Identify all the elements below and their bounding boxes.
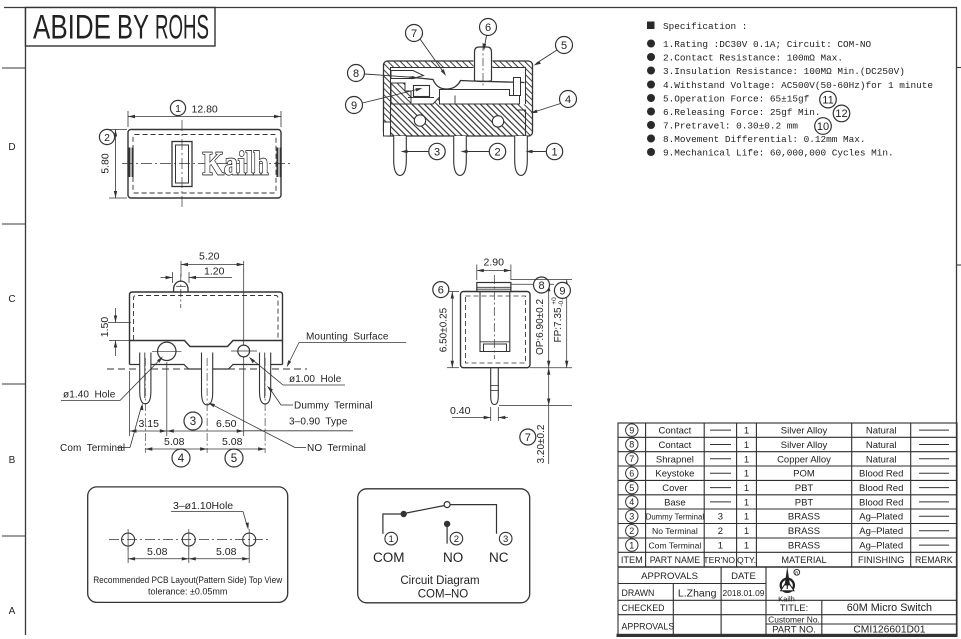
svg-text:5.08: 5.08: [164, 436, 185, 448]
svg-text:Natural: Natural: [866, 426, 897, 437]
svg-text:PBT: PBT: [795, 483, 814, 494]
svg-text:TER'NO.: TER'NO.: [703, 555, 737, 565]
dimension 6.50+-0.25: [447, 292, 459, 368]
dimension 3.15: [130, 362, 167, 436]
svg-text:6.50: 6.50: [216, 418, 237, 430]
label Mounting Surface: [287, 332, 406, 368]
switch lever wire: [407, 506, 445, 514]
svg-text:1: 1: [551, 147, 557, 159]
svg-text:Contact: Contact: [659, 440, 692, 451]
svg-text:REMARK: REMARK: [915, 555, 953, 565]
node COM (filled): [401, 511, 407, 517]
PCB box border: [88, 487, 288, 603]
callout 6: [480, 19, 497, 51]
svg-text:ABIDE: ABIDE: [33, 9, 111, 47]
table header row texts: [621, 555, 953, 565]
svg-text:Com Terminal: Com Terminal: [60, 443, 125, 454]
svg-text:1: 1: [718, 541, 723, 552]
zone tick left 3: [2, 383, 26, 385]
svg-text:COM–NO: COM–NO: [418, 589, 469, 601]
svg-text:1: 1: [175, 103, 181, 115]
svg-text:Circuit Diagram: Circuit Diagram: [400, 575, 479, 587]
front inner dashed outline: [134, 296, 279, 341]
plunger centerline: [482, 43, 484, 86]
svg-text:9.Mechanical Life: 60,000,000: 9.Mechanical Life: 60,000,000 Cycles Min…: [663, 148, 894, 159]
svg-text:DRAWN: DRAWN: [622, 588, 655, 598]
dimension 5.08 right: [207, 448, 265, 450]
svg-text:D: D: [8, 142, 15, 153]
svg-text:1.20: 1.20: [204, 266, 225, 278]
callout circle 12: [833, 105, 850, 122]
frame right border: [956, 8, 958, 638]
svg-text:DATE: DATE: [731, 571, 756, 582]
svg-text:3: 3: [629, 511, 634, 521]
part 9 base line: [408, 97, 434, 99]
svg-text:Natural: Natural: [866, 440, 897, 451]
top view inner dashed outline: [133, 135, 276, 194]
svg-text:1: 1: [629, 540, 634, 550]
zone tick left 2: [2, 223, 26, 225]
svg-text:QTY.: QTY.: [737, 555, 756, 565]
svg-text:4: 4: [178, 453, 185, 465]
wire NO lead: [446, 527, 448, 544]
svg-text:2018.01.09: 2018.01.09: [723, 588, 765, 598]
hole NO (right): [238, 345, 250, 357]
svg-text:3.20±0.2: 3.20±0.2: [536, 424, 547, 463]
com contact finger: [391, 71, 424, 79]
dimension 12.80: [128, 111, 281, 127]
svg-text:3: 3: [718, 512, 723, 523]
dimension FP:7.35: [511, 280, 572, 368]
terminal NO (middle): [202, 353, 213, 405]
svg-text:ITEM: ITEM: [621, 555, 643, 565]
side plunger cap ribs: [477, 286, 511, 288]
top view keystem inner rect: [176, 145, 189, 183]
svg-text:1: 1: [744, 512, 749, 523]
terminal com centerline: [144, 358, 146, 453]
callout circle 3 (front): [184, 412, 202, 430]
dimension 2.90: [477, 265, 511, 281]
label 3-0.90 Type: [244, 417, 353, 431]
side inner dashed outline: [466, 296, 526, 363]
terminal circle 1: [385, 532, 398, 545]
svg-text:FP:7.35: FP:7.35: [553, 307, 564, 342]
svg-text:2: 2: [629, 526, 634, 536]
circuit box border: [358, 489, 530, 603]
dimension 6.50: [167, 430, 244, 432]
NO block inner line: [454, 96, 456, 105]
svg-text:1: 1: [744, 440, 749, 451]
svg-text:12: 12: [835, 108, 847, 120]
svg-text:Blood Red: Blood Red: [859, 483, 903, 494]
svg-text:APPROVALS: APPROVALS: [622, 622, 675, 632]
svg-text:1: 1: [744, 483, 749, 494]
svg-text:Base: Base: [664, 497, 686, 508]
cavity inner outline: [391, 68, 526, 105]
svg-text:9: 9: [629, 425, 634, 435]
spec bullet 5: [647, 94, 655, 102]
dimension 3.20+-0.2: [499, 368, 572, 464]
dimension 5.20: [181, 261, 244, 345]
svg-text:8.Movement Differential: 0.12m: 8.Movement Differential: 0.12mm Max.: [663, 134, 866, 145]
table outer border: [618, 423, 957, 635]
side centerline: [493, 275, 495, 359]
svg-text:C: C: [8, 294, 15, 305]
svg-text:7.Pretravel: 0.30±0.2 mm: 7.Pretravel: 0.30±0.2 mm: [663, 121, 798, 132]
svg-text:BRASS: BRASS: [788, 526, 820, 537]
svg-text:Recommended PCB Layout(Pattern: Recommended PCB Layout(Pattern Side) Top…: [93, 575, 282, 585]
svg-text:tolerance: ±0.05mm: tolerance: ±0.05mm: [148, 587, 227, 597]
table column lines: [645, 423, 647, 567]
hole com crosshair: [152, 350, 182, 352]
svg-text:7: 7: [629, 454, 634, 464]
dimension 5.80: [109, 130, 127, 199]
svg-text:3: 3: [434, 147, 440, 159]
svg-text:ø1.40 Hole: ø1.40 Hole: [63, 390, 116, 401]
terminal dummy inner line: [264, 353, 266, 399]
front plunger dome: [174, 281, 188, 292]
terminal NO centerline: [206, 358, 208, 453]
svg-text:Cover: Cover: [662, 483, 687, 494]
svg-text:PART NO.: PART NO.: [772, 624, 816, 635]
callout 5: [534, 37, 573, 66]
dimension 1.50: [108, 308, 131, 356]
callout circle 4 (front): [172, 449, 190, 467]
side plunger stem: [480, 292, 510, 352]
callout circle 7 (side): [520, 429, 536, 445]
callout 8: [348, 65, 419, 82]
svg-text:+0: +0: [551, 297, 558, 305]
svg-text:APPROVALS: APPROVALS: [641, 571, 698, 582]
spec title square bullet: [647, 22, 655, 30]
svg-text:8: 8: [629, 440, 634, 450]
side pin: [491, 368, 499, 405]
callout circle 9 (side): [554, 282, 570, 298]
side plunger stem divider: [480, 341, 510, 343]
label 3-o1.10Hole: [171, 500, 249, 530]
side plunger cap: [477, 283, 511, 292]
top view keystem outer rect: [172, 142, 192, 187]
front plunger crosshair tick: [176, 286, 186, 288]
zone tick left 4: [2, 535, 26, 537]
svg-text:5: 5: [231, 453, 237, 465]
terminal dummy (right): [260, 353, 271, 405]
svg-text:3.Insulation Resistance: 100MΩ: 3.Insulation Resistance: 100MΩ Min.(DC25…: [663, 66, 905, 77]
svg-text:Blood Red: Blood Red: [859, 469, 903, 480]
svg-text:8: 8: [353, 68, 359, 80]
svg-text:5.08: 5.08: [222, 436, 243, 448]
svg-text:0.40: 0.40: [450, 405, 471, 417]
shrapnel spring: [409, 77, 525, 89]
spec bullet 4: [647, 81, 655, 89]
svg-text:8: 8: [538, 280, 544, 292]
svg-text:2.Contact Resistance: 100mΩ Ma: 2.Contact Resistance: 100mΩ Max.: [663, 53, 843, 64]
svg-text:10: 10: [817, 121, 829, 133]
svg-text:CHECKED: CHECKED: [622, 603, 665, 613]
section pin 2 (middle): [454, 136, 467, 176]
node NO (filled): [444, 521, 450, 527]
svg-text:4: 4: [565, 94, 571, 106]
left hatched fixture: [391, 83, 411, 104]
svg-text:BY: BY: [117, 9, 149, 47]
front body bottom edge: [130, 365, 283, 370]
NO contact block: [440, 90, 520, 105]
svg-text:11: 11: [822, 94, 833, 106]
svg-text:Customer No.: Customer No.: [768, 614, 820, 624]
svg-text:6.50±0.25: 6.50±0.25: [439, 307, 450, 352]
qty column: [744, 426, 749, 552]
node lever pivot (open): [444, 502, 450, 508]
right contact bar: [514, 78, 521, 96]
svg-text:POM: POM: [793, 469, 815, 480]
svg-text:3–ø1.10Hole: 3–ø1.10Hole: [173, 500, 233, 512]
finishing column: [859, 426, 903, 552]
base hole right: [492, 116, 503, 127]
front step line: [130, 341, 283, 347]
svg-text:5: 5: [561, 40, 567, 52]
svg-text:3.15: 3.15: [139, 418, 160, 430]
PCB centerline: [109, 539, 268, 541]
callout 2 with arrow: [461, 143, 506, 159]
svg-text:Kailh: Kailh: [778, 595, 795, 604]
svg-text:1: 1: [389, 534, 394, 545]
svg-text:5.20: 5.20: [199, 251, 220, 263]
callout 1 with arrow: [526, 143, 563, 159]
spec bullet 1: [647, 40, 655, 48]
top view side tabs: [128, 148, 281, 178]
svg-text:Silver Alloy: Silver Alloy: [781, 440, 828, 451]
svg-text:1: 1: [744, 497, 749, 508]
frame top border: [4, 7, 957, 9]
svg-text:9: 9: [559, 285, 565, 297]
svg-text:Specification :: Specification :: [663, 21, 747, 32]
dimension 1.20: [161, 272, 233, 283]
zone tick right 2: [957, 264, 961, 266]
svg-text:2: 2: [454, 534, 459, 545]
callout 3 with arrow: [401, 143, 446, 159]
svg-text:3–0.90 Type: 3–0.90 Type: [289, 417, 348, 428]
svg-text:12.80: 12.80: [192, 104, 218, 116]
mounting surface dashed line: [107, 368, 307, 370]
spec bullet 8: [647, 135, 655, 143]
spec bullet 6: [647, 108, 655, 116]
svg-text:Natural: Natural: [866, 454, 897, 465]
svg-text:3: 3: [503, 534, 508, 545]
svg-text:1.50: 1.50: [99, 317, 111, 338]
front body outline: [130, 292, 283, 365]
PCB dimension 5.08 left: [128, 548, 249, 563]
svg-text:NO: NO: [443, 550, 463, 565]
svg-text:Ag–Plated: Ag–Plated: [859, 512, 903, 523]
svg-text:Dummy Terminal: Dummy Terminal: [294, 401, 373, 412]
svg-text:2: 2: [718, 526, 723, 537]
svg-text:2.90: 2.90: [484, 257, 505, 269]
svg-text:7: 7: [411, 28, 417, 40]
material column: [777, 426, 831, 552]
svg-text:CMI126601D01: CMI126601D01: [853, 624, 925, 635]
dimension OP:6.90+-0.2: [511, 284, 572, 368]
callout circle 2 (top view): [99, 129, 114, 144]
callout circle 6 (side): [433, 282, 449, 298]
callout 9: [346, 88, 423, 114]
side plunger stem inner box: [484, 344, 507, 352]
svg-text:1: 1: [744, 426, 749, 437]
svg-text:6.Releasing Force: 25gf Min.: 6.Releasing Force: 25gf Min.: [663, 107, 821, 118]
callout circle 10: [815, 118, 832, 135]
svg-text:Dummy Terminal: Dummy Terminal: [646, 513, 705, 522]
label NO Terminal: [208, 403, 366, 454]
svg-text:6: 6: [438, 285, 444, 297]
table bottom thick border: [617, 634, 958, 637]
section pin 1 (right): [515, 136, 528, 176]
svg-text:1: 1: [744, 526, 749, 537]
part 9 block: [414, 86, 430, 97]
wire NC lead: [450, 505, 496, 534]
table row lines: [618, 436, 957, 438]
svg-text:1: 1: [744, 469, 749, 480]
spec bullet 7: [647, 121, 655, 129]
wire COM lead: [383, 514, 401, 534]
remark column dashes: [919, 430, 949, 545]
svg-text:ROHS: ROHS: [155, 9, 209, 47]
svg-text:No Terminal: No Terminal: [652, 526, 698, 536]
hole com (left): [158, 342, 176, 360]
svg-text:B: B: [9, 455, 16, 466]
svg-text:Shrapnel: Shrapnel: [656, 454, 694, 465]
svg-text:5.80: 5.80: [100, 153, 112, 174]
svg-text:ø1.00 Hole: ø1.00 Hole: [289, 374, 342, 385]
side pin marks: [491, 385, 499, 387]
base hole left: [414, 115, 425, 126]
svg-text:MATERIAL: MATERIAL: [781, 555, 826, 565]
front plunger centerline: [180, 274, 182, 308]
callout circle 11: [820, 91, 837, 108]
svg-text:3: 3: [190, 416, 196, 428]
PCB hole 2: [182, 533, 195, 546]
cavity white interior: [391, 68, 526, 105]
svg-text:9: 9: [351, 100, 357, 112]
callout circle 8 (side): [534, 277, 550, 293]
terminal com inner line: [144, 353, 146, 399]
spec bullet 3: [647, 67, 655, 75]
title block labels: [622, 571, 933, 636]
ter'no column dashes and numbers: [710, 430, 731, 502]
hole NO crosshair: [231, 350, 257, 352]
svg-text:Keystoke: Keystoke: [655, 469, 694, 480]
svg-text:A: A: [9, 606, 16, 617]
svg-text:Blood Red: Blood Red: [859, 497, 903, 508]
svg-text:2: 2: [104, 132, 110, 144]
callout 7: [406, 25, 447, 77]
svg-text:4: 4: [629, 497, 634, 507]
side body outline: [461, 292, 531, 368]
svg-text:Contact: Contact: [659, 426, 692, 437]
svg-text:5.08: 5.08: [147, 546, 168, 558]
cover left foot: [384, 122, 391, 136]
svg-text:Ag–Plated: Ag–Plated: [859, 541, 903, 552]
PCB hole 3: [243, 533, 256, 546]
svg-text:Copper Alloy: Copper Alloy: [777, 454, 831, 465]
callout circle 5 (front): [225, 449, 243, 467]
zone tick right 1: [957, 67, 961, 69]
svg-text:Silver Alloy: Silver Alloy: [781, 426, 828, 437]
callout 4: [531, 91, 577, 114]
dimension 0.40: [452, 407, 508, 421]
svg-text:PART NAME: PART NAME: [650, 555, 700, 565]
ABIDE BY ROHS title box: [26, 8, 216, 47]
svg-text:L.Zhang: L.Zhang: [678, 587, 717, 599]
callout circle 1 (top view): [170, 100, 185, 115]
svg-text:PBT: PBT: [795, 497, 814, 508]
label o1.00 Hole: [249, 357, 345, 385]
svg-text:60M Micro Switch: 60M Micro Switch: [847, 602, 932, 614]
top view vertical centerline: [181, 120, 183, 207]
zone tick left 1: [2, 67, 26, 69]
svg-text:5.08: 5.08: [216, 546, 237, 558]
terminal dummy centerline: [264, 358, 266, 453]
top view body outline: [128, 130, 281, 199]
svg-text:BRASS: BRASS: [788, 541, 820, 552]
svg-text:Ag–Plated: Ag–Plated: [859, 526, 903, 537]
svg-text:5: 5: [629, 483, 634, 493]
svg-text:NO Terminal: NO Terminal: [307, 443, 366, 454]
svg-text:FINISHING: FINISHING: [858, 555, 904, 565]
spec bullet 9: [647, 148, 655, 156]
cover hatched shell: [384, 61, 533, 136]
svg-text:1.Rating :DC30V 0.1A; Circuit:: 1.Rating :DC30V 0.1A; Circuit: COM-NO: [663, 39, 872, 50]
svg-text:Com Terminal: Com Terminal: [648, 541, 701, 551]
base hatched block: [391, 97, 526, 137]
svg-text:7: 7: [525, 432, 531, 444]
svg-text:1: 1: [744, 454, 749, 465]
svg-text:NC: NC: [489, 550, 509, 565]
svg-text:COM: COM: [373, 550, 405, 565]
terminal circle 3: [499, 532, 512, 545]
svg-text:2: 2: [494, 147, 500, 159]
svg-text:4.Withstand Voltage: AC500V(50: 4.Withstand Voltage: AC500V(50-60Hz)for …: [663, 80, 933, 91]
svg-text:6: 6: [485, 22, 491, 34]
svg-text:6: 6: [629, 468, 634, 478]
svg-text:BRASS: BRASS: [788, 512, 820, 523]
label Com Terminal: [60, 403, 143, 454]
item number circles: [626, 424, 638, 551]
specification text block: [663, 21, 933, 159]
label Dummy Terminal: [267, 386, 373, 412]
part name column texts: [646, 426, 705, 551]
svg-text:Mounting Surface: Mounting Surface: [306, 332, 389, 343]
svg-text:1: 1: [744, 541, 749, 552]
PCB hole 1: [122, 533, 135, 546]
terminal circle 2: [450, 532, 463, 545]
spec bullet 2: [647, 53, 655, 61]
dimension 5.08 left: [145, 448, 207, 450]
plunger slot: [474, 60, 493, 69]
section pin 3 (left): [394, 136, 407, 176]
svg-text:OP:6.90±0.2: OP:6.90±0.2: [535, 299, 546, 356]
terminal com (left): [140, 353, 151, 404]
svg-text:TITLE:: TITLE:: [780, 603, 809, 614]
frame left border: [25, 8, 27, 636]
plunger keystoke: [475, 47, 492, 82]
svg-text:Kailh: Kailh: [203, 146, 269, 183]
Kailh logo mark: [778, 567, 800, 604]
svg-text:5.Operation Force: 65±15gf: 5.Operation Force: 65±15gf: [663, 94, 810, 105]
top view horizontal centerline: [122, 163, 293, 165]
label o1.40 Hole: [61, 357, 163, 401]
